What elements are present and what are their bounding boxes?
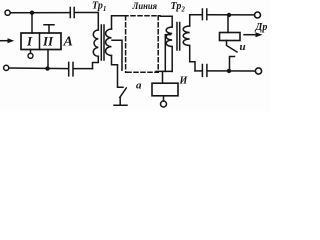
svg-text:И: И xyxy=(179,76,189,87)
svg-text:II: II xyxy=(42,34,54,49)
svg-text:А: А xyxy=(63,35,73,50)
svg-text:а: а xyxy=(136,80,142,92)
svg-text:I: I xyxy=(26,34,33,49)
svg-text:Линия: Линия xyxy=(132,2,157,12)
svg-text:Др: Др xyxy=(255,22,268,33)
svg-text:и: и xyxy=(240,41,246,53)
